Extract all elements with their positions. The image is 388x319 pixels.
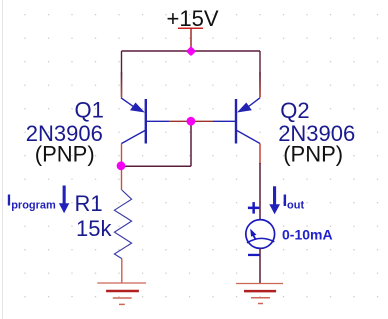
meter M1 0-10mA (246, 220, 275, 249)
svg-text:(PNP): (PNP) (283, 142, 343, 167)
svg-text:+15V: +15V (167, 6, 219, 31)
svg-text:program: program (11, 200, 56, 212)
svg-text:(PNP): (PNP) (35, 142, 95, 167)
meter M1 minus terminal (248, 254, 260, 256)
ground right (236, 284, 283, 304)
wire base bus (169, 120, 213, 122)
wire left emitter drop (121, 51, 123, 98)
svg-text:Q1: Q1 (75, 98, 104, 123)
svg-text:R1: R1 (75, 191, 103, 216)
wire meter to ground (259, 248, 261, 283)
pin stub Q2 emitter (259, 72, 260, 98)
arrow Iout current direction (269, 186, 280, 214)
wire R1 to ground (121, 259, 123, 283)
wire top rail (122, 50, 261, 52)
arrow Iprogram current direction (59, 186, 69, 214)
wire base-to-collector loop horizontal (122, 165, 192, 167)
svg-text:out: out (287, 200, 304, 212)
wire right emitter drop (259, 51, 261, 98)
power port stem wire (190, 28, 192, 51)
resistor R1 zigzag (114, 190, 131, 259)
wire base-to-collector loop vertical (190, 121, 192, 166)
wire Q2 collector to meter (259, 163, 261, 221)
pin stub Q1 collector wire to node (121, 144, 123, 191)
transistor Q2 (213, 98, 260, 144)
transistor Q1 (121, 98, 169, 144)
label Iprogram (7, 192, 56, 211)
pin stub Q2 collector (259, 144, 261, 165)
meter M1 plus terminal (248, 202, 259, 214)
label Iout (283, 191, 305, 212)
svg-text:15k: 15k (76, 216, 112, 241)
junction collector node A (117, 161, 126, 170)
svg-text:0-10mA: 0-10mA (282, 227, 333, 243)
svg-text:Q2: Q2 (280, 98, 309, 123)
junction power node (186, 46, 196, 56)
pin stub Q1 emitter (121, 72, 122, 98)
ground left (97, 283, 146, 304)
junction base node (187, 117, 196, 126)
power port bar (178, 27, 203, 29)
